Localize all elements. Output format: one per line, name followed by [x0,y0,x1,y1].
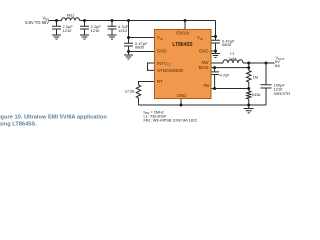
svg-text:243k: 243k [252,92,261,97]
svg-text:GND: GND [199,49,209,54]
node dot C2 [83,19,86,22]
svg-text:L1: L1 [230,51,235,56]
node dot GND rail 243k [247,104,250,107]
node dot 4.7pF top [213,66,216,69]
wire output cap branch [265,63,267,105]
node dot VOUT junction [247,62,250,65]
wire VIN branch vertical [128,21,130,52]
svg-text:RT: RT [157,79,163,84]
node dot VIN pin right [214,35,217,38]
svg-text:1M: 1M [253,75,259,80]
ground symbol output [244,105,254,113]
svg-text:FB1: WE-MPSB 100Ω 8A 1812: FB1: WE-MPSB 100Ω 8A 1812 [144,118,198,123]
wire 1M to FB node [248,82,250,89]
svg-text:X5R/X7R: X5R/X7R [274,91,291,96]
node dot FB left [213,87,216,90]
wire right VIN corner [215,21,217,52]
capacitor C6 4.7pF [210,68,219,89]
wire 243k to ground rail [248,99,250,105]
svg-text:EN/UV: EN/UV [176,31,189,36]
ground under C2 [80,35,89,39]
wire BIAS [211,67,249,69]
svg-text:GND: GND [177,93,187,98]
resistor R2 1M [247,71,251,82]
wire EN/UV drop [184,21,186,30]
svg-text:1µH: 1µH [229,56,237,61]
node dot C3 [111,19,114,22]
svg-text:FB1: FB1 [67,13,75,18]
wire to VIN pin [129,37,155,39]
svg-text:0805: 0805 [135,45,145,50]
node dot GND pin left [127,50,130,53]
wire top VIN rail [49,20,216,22]
wire to VIN pin right [211,36,216,38]
wire FB [211,88,249,90]
wire SW to L1 [211,62,223,64]
svg-text:0805: 0805 [222,42,232,47]
capacitor C3 4.7uF [108,21,117,36]
wire VOUT to divider [248,63,250,71]
wire L1 to VOUT [243,62,275,64]
node dot VIN pin left [127,36,130,39]
inductor L1 1uH [223,60,243,63]
wire IC GND stub [180,99,182,106]
node dot BIAS junction [247,66,250,69]
svg-text:SYNC/MODE: SYNC/MODE [157,68,183,73]
svg-text:4.7pF: 4.7pF [220,73,231,78]
op-amp U1 LT8645S body [155,30,212,99]
resistor R1 17.8k [136,85,140,98]
svg-text:using LT8645S.: using LT8645S. [0,121,37,127]
wire INTVCC SYNC/MODE loop [148,63,155,70]
svg-text:INTVCC: INTVCC [157,61,172,67]
svg-text:VIN: VIN [157,35,163,41]
wire RT pin [139,82,155,86]
node dot FB right [247,87,250,90]
svg-text:GND: GND [157,49,167,54]
ground under C1 [52,35,61,39]
wire RT to ground rail [138,98,140,105]
svg-text:5.5V TO 65V: 5.5V TO 65V [25,20,49,25]
ground under C5 [211,51,220,58]
resistor R3 243k [247,91,251,99]
ferrite bead FB1 [62,18,80,21]
capacitor C1 2.2uF [52,21,61,36]
capacitor C7 100uF [261,85,272,88]
ground under C4 [124,52,133,60]
capacitor C4 0.47uF left bypass [124,43,133,46]
svg-text:BIAS: BIAS [199,65,209,70]
node dot VIN branch [127,19,130,22]
wire to GND pin right [211,50,216,52]
ground under C3 [108,35,117,39]
svg-text:1210: 1210 [91,28,101,33]
node dot GND pin right [214,50,217,53]
svg-text:1210: 1210 [63,28,73,33]
svg-text:17.8k: 17.8k [125,89,135,94]
wire to GND pin left [129,51,155,53]
node dot GND rail IC [180,104,183,107]
capacitor C2 2.2uF [80,21,89,36]
node dot cap branch [265,62,268,65]
node dot EN/UV [184,19,187,22]
svg-text:1210: 1210 [118,28,128,33]
svg-text:Figure 10. Ultralow EMI 5V/8A: Figure 10. Ultralow EMI 5V/8A applicatio… [0,114,107,120]
svg-text:VIN: VIN [197,35,203,41]
node dot input [55,19,58,22]
svg-text:LT8645S: LT8645S [172,42,193,48]
svg-text:8A: 8A [275,63,280,68]
svg-text:FB: FB [203,83,209,88]
capacitor C5 0.47uF right bypass [211,40,220,43]
wire FB node to 243k [248,89,250,92]
wire bottom ground rail [139,104,267,106]
